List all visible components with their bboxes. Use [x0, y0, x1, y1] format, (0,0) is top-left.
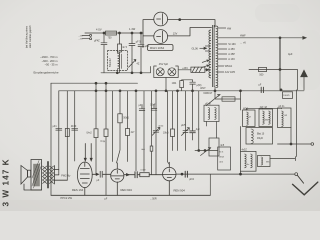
svg-text:~1600 - 700 m: ~1600 - 700 m	[40, 55, 58, 59]
wire column 185 trimmer	[185, 91, 187, 151]
svg-text:µF/5: µF/5	[181, 125, 186, 127]
node coilC out	[290, 143, 292, 145]
node v5a	[181, 173, 183, 175]
tube V3 grid	[80, 163, 89, 184]
wire column 136	[135, 91, 137, 171]
wire mains top	[85, 32, 143, 34]
wire bus main	[59, 90, 304, 92]
arrow grid V5	[127, 174, 130, 176]
winding zigzag A	[43, 166, 47, 184]
inductor LC	[282, 111, 284, 126]
wire column 192	[192, 91, 194, 140]
wire coil tops	[247, 108, 282, 110]
node mains D	[140, 32, 142, 34]
potentiometer wire	[215, 98, 241, 100]
wire bottom bus	[51, 194, 210, 196]
resistor R10	[171, 129, 175, 137]
arrow up symbol	[301, 70, 308, 77]
svg-text:alten Gerätes geprüft: alten Gerätes geprüft	[29, 25, 32, 48]
resistor R15	[150, 146, 153, 151]
node ground join	[240, 173, 242, 175]
svg-text:10nF: 10nF	[150, 105, 156, 107]
svg-text:← nV: ← nV	[240, 42, 246, 45]
svg-text:µF4Z: µF4Z	[94, 39, 100, 42]
svg-text:µF 5: µF 5	[136, 41, 142, 44]
wire coilC down	[290, 128, 292, 145]
svg-text:W4Z: W4Z	[219, 157, 224, 159]
svg-text:GL06: GL06	[192, 47, 199, 51]
wire riser 210	[209, 174, 211, 195]
wire smoothing	[249, 70, 298, 90]
svg-text:4F4Z: 4F4Z	[71, 126, 77, 128]
svg-text:Empfangsbereiche: Empfangsbereiche	[33, 71, 58, 75]
tube V5 electrodes	[163, 169, 176, 178]
wire column 172	[172, 91, 174, 151]
svg-text:µ(W): µ(W)	[196, 85, 201, 87]
output transformer core	[48, 162, 49, 189]
transformer T1 primary	[209, 30, 211, 78]
capacitor C6	[72, 128, 78, 130]
capacitor C2	[129, 33, 135, 59]
inductor LF	[261, 157, 263, 165]
primary selector arrow1	[202, 60, 209, 63]
svg-text:HWF: HWF	[240, 35, 246, 38]
wire right column down	[240, 90, 242, 110]
dial lamp LP1	[156, 68, 164, 76]
arrow bleeder to transformer	[205, 69, 209, 71]
wire column 120	[117, 91, 121, 163]
svg-text:4n: 4n	[247, 164, 249, 166]
output transformer box	[31, 160, 42, 191]
svg-text:1·4W: 1·4W	[129, 27, 136, 31]
tap 49	[218, 48, 227, 50]
arrow V3 anode	[92, 173, 98, 175]
node mains C	[131, 32, 133, 34]
coil box B	[259, 109, 273, 127]
node AF b	[131, 72, 133, 74]
tube V4 cathode	[116, 182, 118, 195]
wire lamp drop	[165, 78, 167, 91]
capacitor C12 series	[261, 87, 263, 92]
svg-text:A 13V: A 13V	[228, 58, 235, 61]
capacitor C1	[101, 33, 107, 73]
node comb crossings	[95, 90, 97, 92]
tap 72	[218, 71, 224, 73]
wire antenna lead	[270, 158, 295, 160]
node sw2	[204, 150, 206, 152]
wire column 96	[95, 83, 97, 174]
svg-text:RES 164: RES 164	[72, 188, 84, 192]
svg-text:4µF: 4µF	[196, 129, 201, 131]
tube V3 envelope	[77, 162, 92, 188]
svg-text:4 SV: 4 SV	[96, 27, 102, 31]
resistor R5	[65, 129, 69, 137]
inductor osc2	[215, 108, 217, 120]
svg-text:µF/4: µF/4	[189, 179, 194, 181]
wire lamp to bleeder	[178, 69, 191, 71]
tube V4 top lead	[116, 163, 118, 169]
coil box A	[243, 110, 256, 127]
node sw1	[198, 150, 200, 152]
speaker cone	[21, 166, 28, 185]
wire bus left drop B	[58, 91, 60, 175]
node bus u2	[105, 82, 107, 84]
transformer T1 secondary	[216, 26, 218, 88]
svg-text:PW2 My: PW2 My	[61, 175, 71, 178]
node mains B	[119, 32, 121, 34]
tap primary stub1	[205, 45, 210, 47]
inductor LE2	[251, 154, 253, 168]
svg-text:St 16C: St 16C	[228, 43, 236, 46]
rectifier V1a anode	[157, 14, 163, 25]
svg-text:MW: MW	[265, 120, 269, 122]
tap 44	[218, 43, 227, 45]
tap out2	[54, 174, 58, 176]
node bus u1	[95, 82, 97, 84]
capacitor C3	[138, 33, 144, 73]
coil box D	[246, 128, 273, 145]
trimmer C9	[182, 128, 190, 136]
wire V4 to V5	[124, 174, 163, 176]
node 280	[279, 69, 281, 71]
svg-text:REN 904: REN 904	[174, 188, 186, 192]
svg-text:0/4µ5: 0/4µ5	[257, 138, 264, 140]
wire column 106	[105, 83, 107, 195]
coupling capacitor C13	[100, 171, 111, 177]
wire column 240 mid	[240, 127, 242, 152]
svg-text:10kΩ: 10kΩ	[163, 133, 169, 135]
svg-text:~600 - 200 m: ~600 - 200 m	[42, 59, 59, 63]
wire column 198	[198, 91, 200, 151]
wire column 156	[155, 91, 157, 175]
capacitor C8	[151, 104, 157, 110]
node AF a	[116, 72, 118, 74]
rectifier tube V1a	[154, 12, 168, 26]
tube V5 top lead	[168, 162, 170, 167]
switch wire	[195, 150, 218, 152]
svg-text:LW: LW	[284, 115, 287, 117]
svg-text:PPC2 2W: PPC2 2W	[61, 196, 73, 200]
wire V1b tap	[168, 28, 212, 36]
svg-text:3 W 147 K: 3 W 147 K	[2, 158, 11, 206]
coil box F	[258, 156, 271, 167]
shield box L1	[108, 51, 128, 71]
lamp housing	[154, 66, 178, 78]
wire column 66	[66, 91, 68, 180]
tap 66	[218, 65, 224, 67]
trimmer capacitor C4	[129, 59, 136, 73]
inductor LE1	[245, 154, 247, 168]
wire column 127	[127, 91, 129, 162]
tap 54	[218, 53, 227, 55]
wire bus upper	[51, 82, 138, 84]
capacitor C14	[135, 172, 137, 178]
resistor R8	[118, 114, 122, 123]
resistor R2	[119, 33, 121, 73]
svg-text:4n5Z: 4n5Z	[242, 149, 248, 151]
dial lamp LP2	[168, 68, 176, 76]
wire 280 lower	[279, 70, 281, 90]
resistor R12	[259, 67, 267, 71]
capacitor C10	[190, 131, 196, 133]
wire column 112	[112, 91, 114, 162]
tube label box V1	[148, 45, 174, 51]
svg-text:RGN 1064: RGN 1064	[150, 46, 165, 50]
wire antenna column	[296, 90, 298, 157]
arrow HT end	[303, 36, 306, 39]
svg-text:1W4: 1W4	[172, 83, 177, 85]
tap HW	[218, 27, 226, 29]
trimmer C16	[152, 128, 160, 136]
tube V5 envelope	[163, 167, 176, 180]
speaker return	[24, 184, 42, 190]
terminal TA2	[90, 38, 92, 40]
rectifier tube V1b	[154, 30, 168, 44]
wire bus left drop A	[50, 83, 52, 195]
tube V5 cathode	[168, 181, 170, 195]
terminal circle right	[311, 143, 314, 146]
tap primary stub2	[205, 50, 210, 52]
svg-text:4n5Z: 4n5Z	[158, 125, 164, 127]
wire HT drop right	[279, 38, 281, 70]
wire rectifier left rail	[143, 20, 154, 48]
tap out3	[54, 179, 67, 181]
svg-text:500: 500	[259, 73, 264, 76]
note reception ranges	[33, 55, 58, 75]
terminal antenna T	[294, 157, 296, 161]
wire column 151	[151, 91, 153, 175]
svg-text:4SV 3µF: 4SV 3µF	[159, 63, 169, 66]
wire detector out	[278, 143, 312, 145]
inductor osc1	[208, 108, 210, 120]
resistor R13	[283, 92, 293, 99]
svg-text:←50R: ←50R	[150, 197, 157, 200]
coil box E	[241, 151, 257, 171]
svg-text:W5/1Ω: W5/1Ω	[225, 65, 233, 68]
svg-text:NWD17: NWD17	[204, 92, 213, 95]
svg-text:WGT: WGT	[200, 88, 206, 90]
potentiometer arrow	[206, 95, 220, 106]
node mains A	[103, 32, 105, 34]
wire terminal leads	[82, 35, 89, 38]
node HT	[279, 37, 281, 39]
terminal ground circle	[295, 173, 298, 176]
node rect a	[179, 19, 181, 21]
tap 59	[218, 58, 227, 60]
svg-text:50kΩ: 50kΩ	[123, 118, 129, 120]
svg-text:1/4W5: 1/4W5	[283, 95, 290, 97]
primary selector arrow2	[202, 65, 209, 68]
wire lower AF bus	[101, 67, 151, 73]
tube V3 lead arrows	[84, 144, 86, 161]
wire V5 right	[176, 173, 241, 175]
inductor L1	[118, 51, 120, 73]
resistor R11 small	[180, 81, 184, 88]
capacitor C7	[139, 105, 145, 111]
svg-text:+4SV: +4SV	[182, 68, 188, 70]
arrow mains to primary	[200, 47, 207, 49]
node AF c	[140, 72, 142, 74]
wire column 144	[143, 91, 145, 172]
svg-text:~50 - 35 m: ~50 - 35 m	[45, 63, 59, 67]
inductor L1 core	[120, 54, 122, 69]
svg-text:750: 750	[108, 37, 113, 40]
resistor R9	[126, 129, 130, 136]
terminal TA1	[90, 34, 92, 36]
svg-text:µF 4n: µF 4n	[278, 106, 285, 108]
capacitor C5	[56, 128, 62, 130]
ground symbol	[297, 175, 303, 183]
coil box C	[278, 108, 292, 128]
wire ground lead	[241, 173, 295, 175]
tap HT long	[218, 37, 304, 39]
svg-text:13V: 13V	[173, 33, 178, 36]
switch lever	[201, 148, 211, 156]
resistor R1	[106, 31, 117, 35]
wire lamp feed	[182, 80, 193, 91]
tube V4 electrodes	[111, 170, 124, 179]
speaker driver	[28, 170, 31, 177]
transformer T1 core	[213, 25, 215, 87]
wire osc stubs	[207, 122, 217, 139]
inductor LA	[247, 112, 249, 125]
tube V3 cathode lead	[84, 188, 86, 196]
tube V4 envelope	[111, 169, 124, 182]
tap out1	[54, 169, 58, 171]
output transformer hatch	[32, 161, 41, 189]
winding rail	[53, 166, 55, 185]
svg-text:µF1: µF1	[53, 126, 58, 128]
svg-text:A 45V: A 45V	[228, 48, 235, 51]
wire column 74	[74, 91, 76, 161]
capacitor C15	[185, 171, 187, 177]
svg-text:0/m2: 0/m2	[87, 133, 93, 135]
winding zigzag B	[49, 166, 53, 184]
wire column 177	[177, 91, 179, 151]
svg-text:4µF: 4µF	[288, 52, 293, 56]
inductor LD	[251, 129, 253, 143]
resistor bleeder R4	[191, 67, 205, 72]
wire box E bottom	[240, 171, 242, 174]
bandswitch box2	[218, 147, 231, 170]
oscillator coil box	[204, 105, 219, 121]
svg-text:HW: HW	[227, 27, 232, 30]
rectifier V1b anode	[157, 31, 163, 42]
resistor R7	[104, 129, 108, 137]
bandswitch box1	[209, 138, 219, 156]
svg-text:4n 5: 4n 5	[122, 46, 127, 49]
svg-text:4nF 4Z: 4nF 4Z	[260, 107, 268, 109]
resistor R6	[94, 129, 98, 138]
wire column 167	[168, 91, 170, 165]
svg-text:µF 4n: µF 4n	[205, 103, 212, 105]
inductor LB2	[269, 111, 271, 124]
svg-text:REN 904: REN 904	[121, 188, 133, 192]
capacitor C11	[190, 80, 196, 91]
potentiometer R3	[222, 97, 235, 101]
inductor LB1	[263, 111, 265, 124]
svg-text:50kΩ 4Z: 50kΩ 4Z	[110, 58, 112, 67]
svg-text:Blat 10: Blat 10	[257, 132, 265, 135]
svg-text:W5Ω: W5Ω	[243, 108, 248, 110]
resistor R14	[140, 173, 149, 177]
svg-text:A 45P: A 45P	[228, 53, 235, 56]
wire transformer bottom	[214, 87, 216, 100]
wire V1a to transformer	[168, 20, 215, 27]
svg-text:0.1µ: 0.1µ	[101, 141, 106, 143]
svg-text:A4V 1W5: A4V 1W5	[225, 71, 236, 74]
